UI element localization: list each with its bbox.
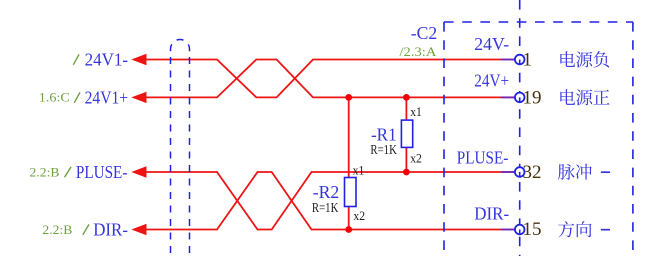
wire vertical branch 24V+ to R2 (348, 97, 350, 177)
svg-text:24V1-: 24V1- (85, 49, 129, 69)
svg-text:x2: x2 (353, 208, 365, 223)
terminal strip dashed line (519, 0, 521, 256)
device box -C2 dashed left edge (443, 22, 445, 256)
net label /DIR- (83, 224, 89, 234)
wire 24V1- twisted pair upper conductor (147, 60, 502, 98)
terminal 32 lead (501, 171, 515, 173)
svg-text:1: 1 (523, 49, 533, 70)
svg-text:R=1K: R=1K (370, 142, 397, 157)
svg-text:15: 15 (523, 219, 542, 240)
terminal 15 lead (501, 229, 515, 231)
device box -C2 dashed top edge (444, 21, 633, 23)
wire DIR twisted pair lower conductor (147, 172, 502, 230)
svg-text:32: 32 (523, 162, 542, 183)
svg-text:24V-: 24V- (474, 34, 509, 54)
svg-text:-R2: -R2 (313, 182, 340, 202)
svg-text:PLUSE-: PLUSE- (76, 162, 128, 182)
wire R2 bottom to DIR (348, 207, 350, 230)
function text 方向 - (558, 221, 610, 237)
cable shield dashed right line (189, 57, 191, 256)
cable shield dashed left line (170, 57, 172, 256)
svg-text:R=1K: R=1K (312, 200, 339, 215)
svg-text:x1: x1 (410, 104, 422, 119)
svg-text:19: 19 (523, 88, 542, 109)
svg-text:DIR-: DIR- (474, 204, 509, 224)
interruption-point arrow for PLUSE (131, 166, 146, 177)
junction node 24V+/R2 branch (345, 94, 352, 101)
function text 电源负 (560, 51, 609, 67)
terminal 1 lead (501, 59, 515, 61)
terminal 15 circle (515, 225, 525, 235)
terminal 19 circle (515, 93, 525, 103)
junction node 24V+/R1 branch (403, 94, 410, 101)
svg-text:DIR-: DIR- (93, 219, 128, 239)
svg-text:1.6:C: 1.6:C (39, 90, 70, 105)
junction node PLUSE/R1 (403, 169, 410, 176)
function text 脉冲 - (558, 164, 610, 180)
svg-text:24V+: 24V+ (474, 71, 509, 91)
cable shield dashed screen arch (171, 40, 190, 58)
terminal 32 circle (515, 167, 525, 177)
device box -C2 dashed right edge (632, 22, 634, 256)
svg-text:24V1+: 24V1+ (85, 87, 129, 107)
svg-text:2.2:B: 2.2:B (30, 164, 60, 179)
terminal 1 circle (515, 55, 525, 65)
net label /PLUSE- (65, 167, 72, 177)
junction node DIR/R2 (345, 226, 352, 233)
interruption-point arrow for 24V1- (131, 54, 146, 65)
interruption-point arrow for DIR (131, 224, 146, 235)
terminal 19 lead (501, 96, 515, 98)
svg-text:x2: x2 (410, 151, 422, 166)
wire vertical branch 24V+ to R1 (405, 97, 407, 120)
wire 24V1+ twisted pair lower conductor (147, 60, 502, 98)
svg-text:/2.3:A: /2.3:A (400, 44, 438, 59)
resistor R2 body (345, 178, 357, 207)
net label /24V1+ (74, 92, 80, 103)
svg-text:PLUSE-: PLUSE- (457, 147, 509, 167)
wire PLUSE twisted pair upper conductor (147, 172, 502, 230)
svg-text:x1: x1 (353, 163, 365, 178)
wire R1 bottom to PLUSE (405, 147, 407, 172)
net label /24V1- (73, 54, 79, 65)
interruption-point arrow for 24V1+ (131, 92, 146, 103)
function text 电源正 (560, 89, 609, 105)
svg-text:-C2: -C2 (411, 23, 437, 43)
resistor R1 body (401, 120, 412, 147)
svg-text:2.2:B: 2.2:B (42, 222, 72, 237)
